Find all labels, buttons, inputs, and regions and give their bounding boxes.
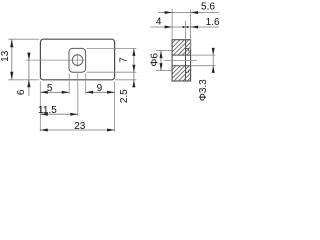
top extension step bbox=[185, 21, 187, 40]
hole top line bbox=[172, 54, 191, 56]
boss face step vertical top bbox=[188, 49, 190, 52]
extension line plate bottom to right bbox=[116, 79, 137, 81]
boss bottom face line bbox=[186, 71, 189, 73]
dimension 4 and 1.6 bbox=[151, 26, 220, 28]
svg-text:1.6: 1.6 bbox=[206, 17, 220, 28]
dimension 11.5 bbox=[40, 113, 78, 115]
centerline vertical crosshair bbox=[77, 54, 79, 67]
side centerline bbox=[164, 59, 197, 61]
svg-text:9: 9 bbox=[97, 83, 103, 94]
svg-text:Φ3.3: Φ3.3 bbox=[198, 79, 209, 101]
phi3.3 extension bottom bbox=[191, 65, 215, 67]
svg-text:7: 7 bbox=[119, 57, 130, 63]
phi3.3 extension top bbox=[191, 54, 215, 56]
bottom extension line square right bbox=[85, 73, 87, 94]
svg-text:13: 13 bbox=[0, 50, 11, 62]
dimension 9 bbox=[86, 91, 115, 93]
svg-text:2.5: 2.5 bbox=[119, 89, 130, 103]
cylinder bottom line bbox=[189, 69, 191, 71]
boss square outline bbox=[69, 48, 86, 72]
front view plate outline bbox=[40, 39, 114, 80]
extension line square bottom to right bbox=[87, 71, 137, 73]
bottom extension line square left bbox=[68, 73, 70, 94]
dimension phi3.3 bbox=[212, 49, 214, 73]
extension line bottom-left bbox=[8, 79, 39, 81]
svg-text:6: 6 bbox=[16, 89, 27, 95]
dimension phi6 bbox=[160, 51, 162, 71]
svg-text:23: 23 bbox=[74, 121, 86, 132]
dimension 13 line bbox=[11, 39, 13, 80]
svg-text:5: 5 bbox=[47, 83, 53, 94]
dimension 23 bbox=[40, 129, 114, 131]
dimension 5 bbox=[40, 91, 69, 93]
dimension 6 line bbox=[28, 54, 30, 96]
svg-text:11.5: 11.5 bbox=[38, 105, 57, 116]
phi6 extension bottom bbox=[156, 70, 171, 72]
hole circle bbox=[72, 55, 83, 66]
boss face step vertical bottom bbox=[188, 70, 190, 72]
dimension 7 and 2.5 line bbox=[133, 48, 135, 87]
side view section outline bbox=[172, 40, 191, 81]
svg-text:5.6: 5.6 bbox=[201, 2, 215, 13]
dimension 5.6 bbox=[158, 12, 219, 14]
svg-text:Φ6: Φ6 bbox=[150, 53, 161, 67]
bottom extension line from right edge bbox=[114, 81, 116, 131]
boss top face line bbox=[186, 48, 189, 50]
hole bottom line bbox=[172, 65, 191, 67]
top extension left edge bbox=[171, 9, 173, 39]
centerline horizontal bbox=[26, 59, 84, 61]
top extension right edge bbox=[190, 9, 192, 50]
extension line square top to right bbox=[87, 47, 137, 49]
cylinder top line bbox=[189, 50, 191, 52]
svg-text:4: 4 bbox=[156, 17, 162, 28]
internal line plate/boss boundary bbox=[185, 40, 187, 81]
phi6 extension top bbox=[156, 50, 171, 52]
hatching bbox=[121, 30, 243, 90]
bottom extension line from left edge bbox=[39, 81, 41, 131]
bottom extension line hole center bbox=[77, 73, 79, 116]
extension line top-left bbox=[8, 38, 39, 40]
